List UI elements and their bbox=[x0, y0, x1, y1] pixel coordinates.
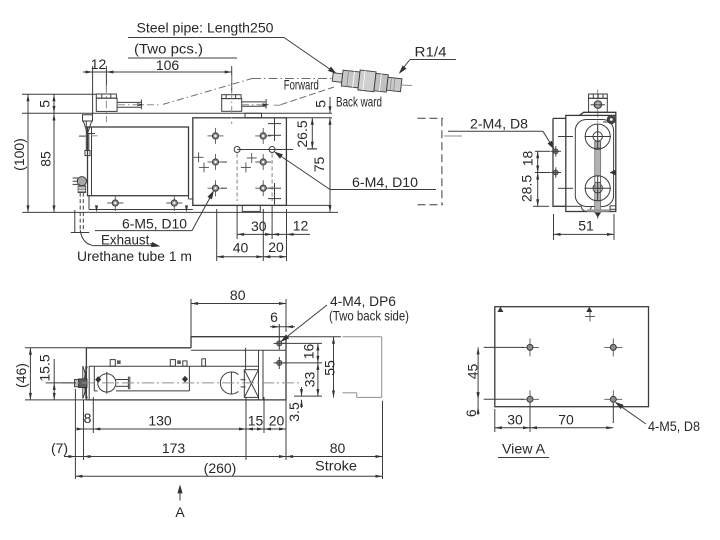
svg-text:51: 51 bbox=[578, 218, 594, 234]
svg-text:(260): (260) bbox=[204, 460, 237, 476]
svg-text:12: 12 bbox=[293, 218, 309, 234]
svg-text:55: 55 bbox=[322, 360, 338, 376]
svg-text:(46): (46) bbox=[13, 363, 29, 388]
svg-text:6-M5, D10: 6-M5, D10 bbox=[122, 216, 187, 232]
svg-text:(Two pcs.): (Two pcs.) bbox=[134, 41, 203, 57]
svg-text:33: 33 bbox=[302, 372, 318, 388]
svg-text:80: 80 bbox=[330, 440, 346, 456]
svg-text:Urethane tube 1 m: Urethane tube 1 m bbox=[77, 248, 192, 264]
svg-text:(100): (100) bbox=[11, 138, 27, 171]
svg-text:18: 18 bbox=[520, 151, 536, 167]
svg-text:2-M4, D8: 2-M4, D8 bbox=[470, 116, 528, 132]
svg-text:40: 40 bbox=[233, 240, 249, 256]
svg-text:130: 130 bbox=[148, 413, 172, 429]
svg-text:Steel pipe: Length250: Steel pipe: Length250 bbox=[137, 20, 274, 36]
svg-text:6: 6 bbox=[270, 309, 278, 325]
svg-text:A: A bbox=[175, 504, 185, 520]
svg-text:6: 6 bbox=[463, 409, 479, 417]
svg-text:12: 12 bbox=[91, 56, 107, 72]
svg-text:8: 8 bbox=[84, 410, 92, 426]
svg-text:80: 80 bbox=[230, 287, 246, 303]
svg-text:15.5: 15.5 bbox=[37, 354, 53, 381]
svg-text:Forward: Forward bbox=[284, 77, 319, 93]
svg-text:75: 75 bbox=[311, 157, 327, 173]
svg-text:45: 45 bbox=[465, 364, 481, 380]
svg-text:85: 85 bbox=[38, 151, 54, 167]
svg-text:(7): (7) bbox=[51, 440, 68, 456]
svg-text:70: 70 bbox=[558, 412, 574, 428]
svg-text:Stroke: Stroke bbox=[315, 458, 357, 474]
svg-text:173: 173 bbox=[162, 440, 186, 456]
svg-text:R1/4: R1/4 bbox=[415, 44, 447, 60]
svg-text:5: 5 bbox=[313, 100, 329, 108]
svg-text:20: 20 bbox=[268, 239, 284, 255]
svg-text:3.5: 3.5 bbox=[286, 402, 302, 422]
svg-text:(Two back side): (Two back side) bbox=[329, 308, 409, 324]
svg-text:6-M4, D10: 6-M4, D10 bbox=[352, 174, 418, 190]
svg-text:View A: View A bbox=[502, 441, 546, 457]
svg-text:106: 106 bbox=[156, 57, 180, 73]
svg-text:4-M5, D8: 4-M5, D8 bbox=[648, 418, 700, 434]
svg-text:5: 5 bbox=[37, 100, 53, 108]
svg-text:26.5: 26.5 bbox=[294, 120, 310, 147]
svg-text:Exhaust,: Exhaust, bbox=[101, 232, 153, 248]
svg-text:15: 15 bbox=[248, 413, 264, 429]
svg-text:30: 30 bbox=[251, 218, 267, 234]
svg-text:20: 20 bbox=[269, 413, 285, 429]
svg-text:30: 30 bbox=[507, 412, 523, 428]
svg-text:16: 16 bbox=[301, 344, 317, 360]
svg-text:Back ward: Back ward bbox=[336, 94, 382, 110]
svg-text:28.5: 28.5 bbox=[519, 175, 535, 202]
